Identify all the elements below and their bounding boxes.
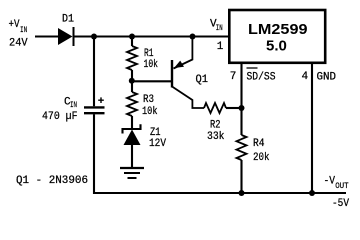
svg-text:-V: -V xyxy=(324,176,336,188)
svg-text:IN: IN xyxy=(70,100,77,110)
svg-text:GND: GND xyxy=(317,71,337,83)
svg-text:470 µF: 470 µF xyxy=(42,111,78,123)
svg-text:Q1 - 2N3906: Q1 - 2N3906 xyxy=(16,175,88,187)
svg-text:R3: R3 xyxy=(143,94,154,106)
svg-text:1: 1 xyxy=(217,41,224,53)
svg-text:24V: 24V xyxy=(9,38,28,50)
svg-text:10k: 10k xyxy=(142,106,158,118)
svg-text:D1: D1 xyxy=(62,14,74,26)
svg-text:IN: IN xyxy=(216,23,223,33)
svg-text:-5V: -5V xyxy=(332,198,349,210)
svg-text:10k: 10k xyxy=(144,59,159,71)
svg-text:20k: 20k xyxy=(253,152,270,164)
svg-text:LM2599: LM2599 xyxy=(248,21,308,38)
svg-text:IN: IN xyxy=(20,25,27,35)
svg-text:R4: R4 xyxy=(253,138,265,150)
svg-text:SD/SS: SD/SS xyxy=(247,71,276,83)
svg-text:OUT: OUT xyxy=(335,181,349,191)
svg-text:R2: R2 xyxy=(210,120,221,132)
svg-text:5.0: 5.0 xyxy=(266,37,287,54)
svg-text:12V: 12V xyxy=(149,138,166,150)
svg-text:4: 4 xyxy=(302,71,309,83)
svg-text:+V: +V xyxy=(9,19,20,31)
svg-text:7: 7 xyxy=(230,71,237,83)
svg-text:33k: 33k xyxy=(207,131,225,143)
svg-text:Q1: Q1 xyxy=(196,74,209,86)
